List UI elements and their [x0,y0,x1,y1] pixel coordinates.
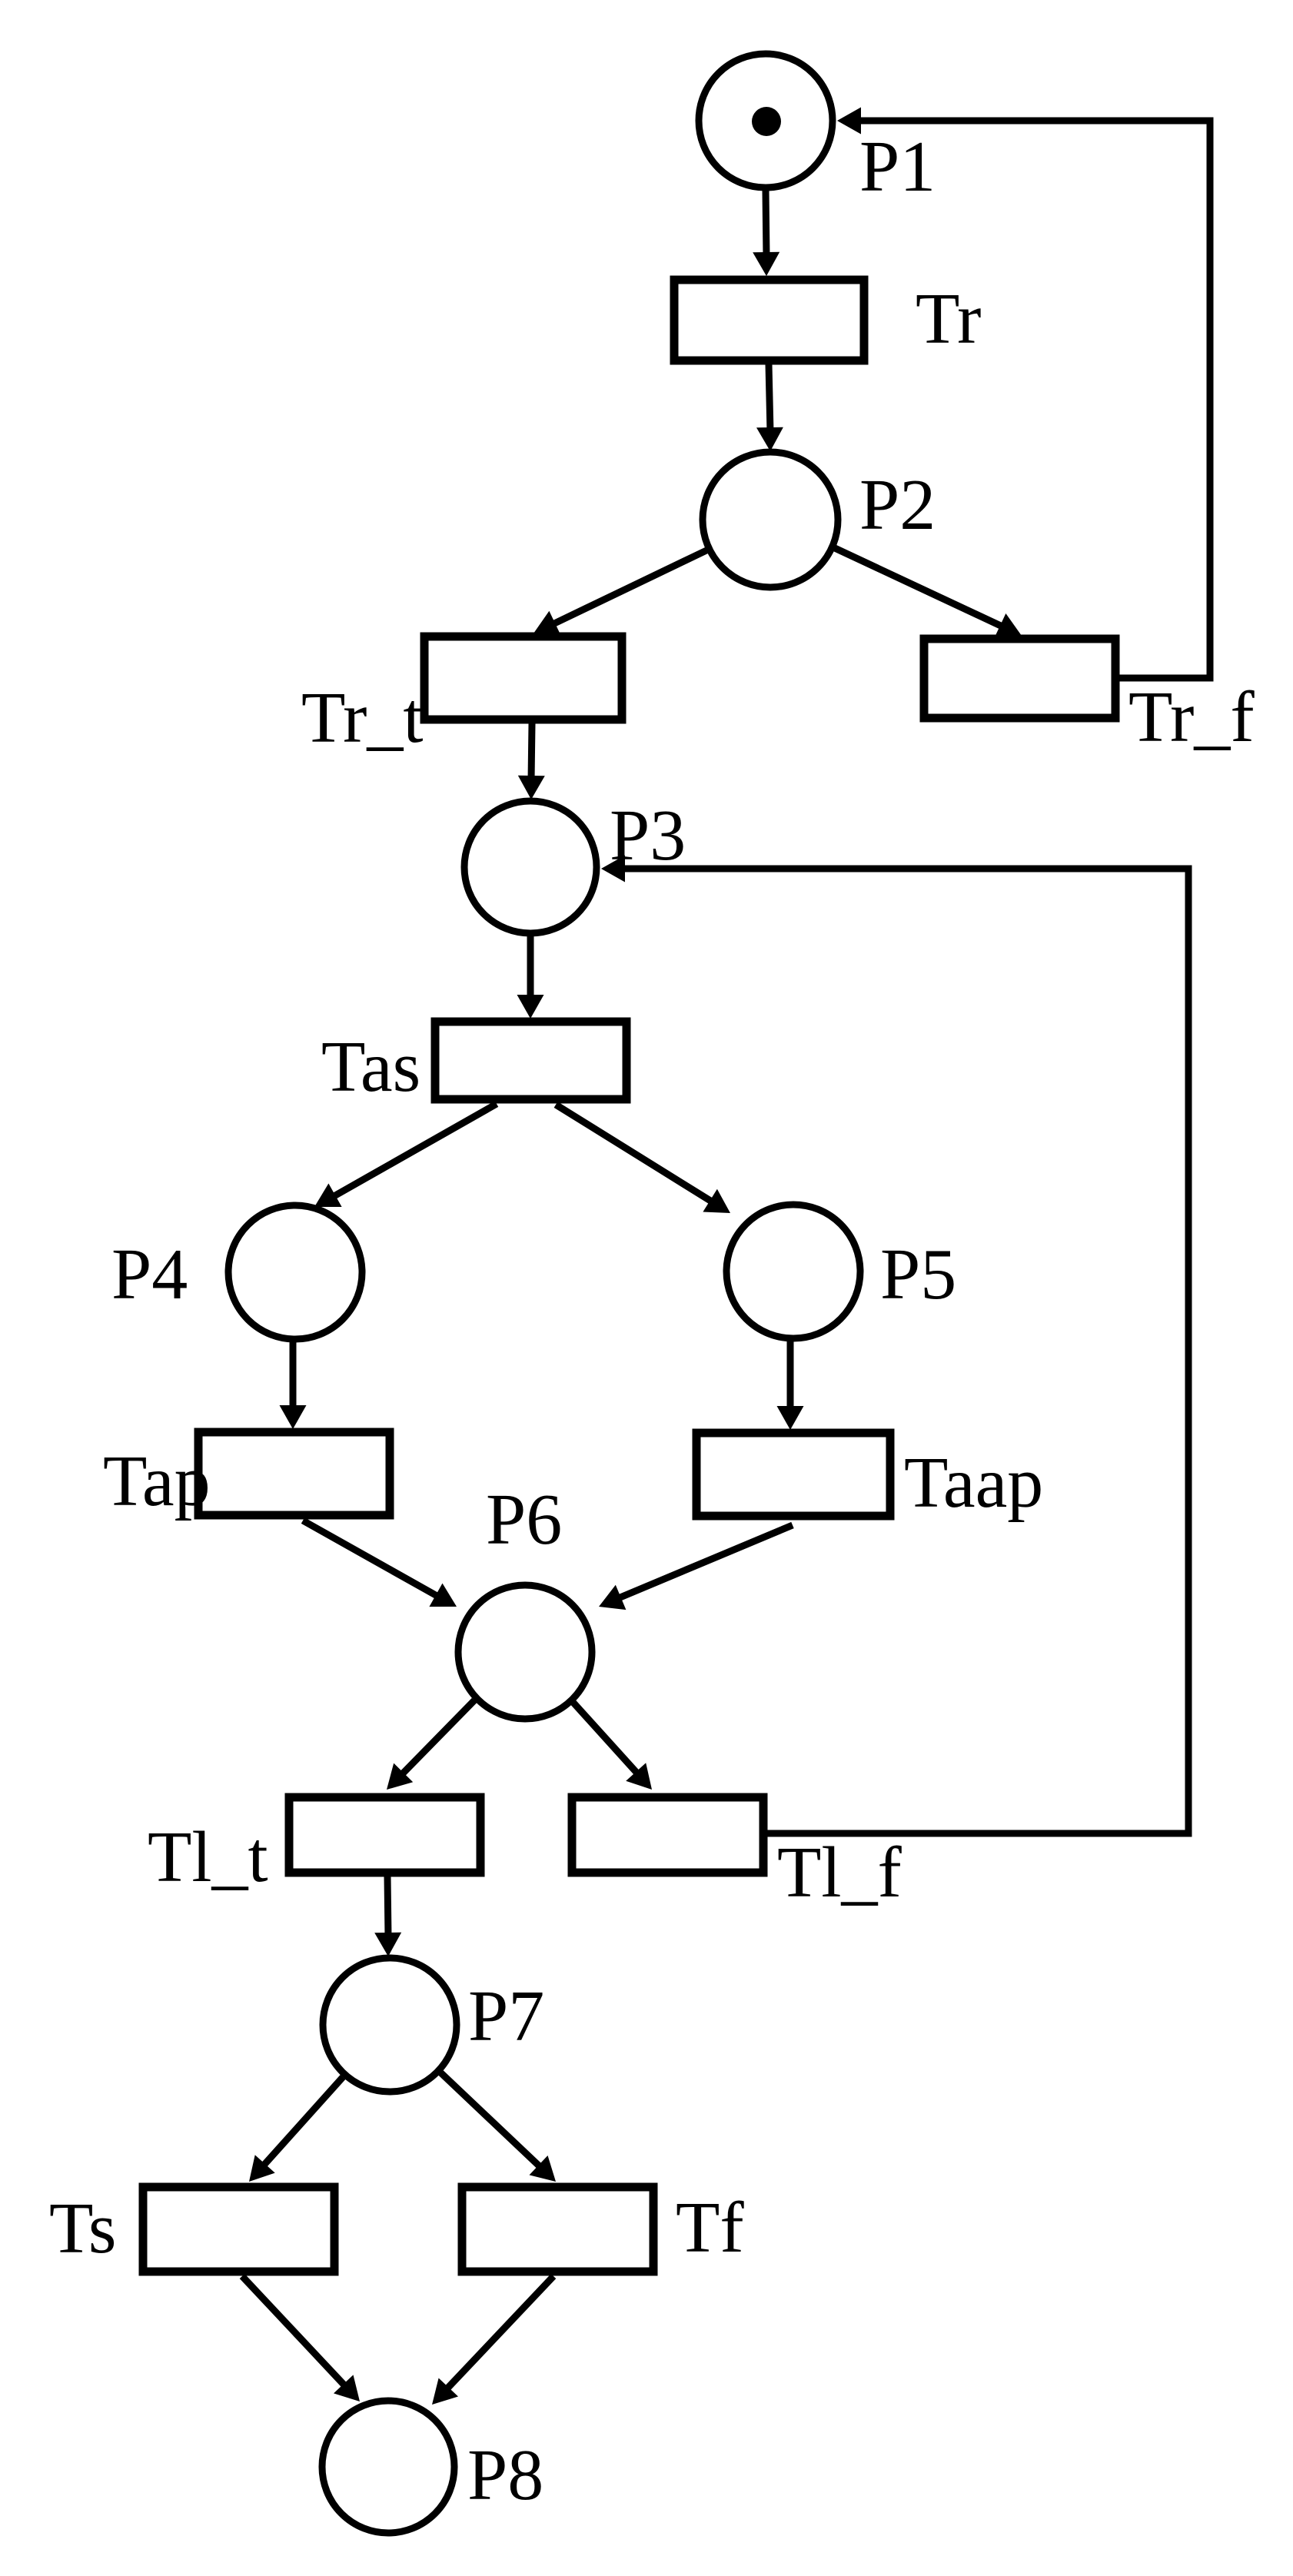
transition Tr_t [424,637,622,720]
arc Tr_t to P3 [531,723,532,780]
arc Tas to P4 [331,1104,497,1198]
place P1 [699,54,833,188]
transition Tas [435,1022,627,1099]
arc P6 to Tl_f [573,1703,639,1775]
place P5 [726,1205,860,1338]
svg-text:P6: P6 [486,1480,562,1560]
transition Tl_f [572,1797,763,1873]
svg-text:Tr: Tr [916,279,981,359]
transition Tr_f [924,639,1115,718]
arc P6 to Tl_t [401,1700,474,1776]
transition Tf [462,2187,653,2272]
svg-text:P7: P7 [468,1976,544,2056]
arc Tr to P2 [769,364,770,432]
transition Ts [143,2187,334,2272]
svg-text:Tr_f: Tr_f [1128,677,1255,757]
arc Tas to P5 [556,1105,714,1203]
arc P7 to Ts [262,2077,343,2167]
arc P1 to Tr [766,191,766,257]
svg-text:P3: P3 [610,796,686,876]
svg-text:Taap: Taap [904,1443,1043,1523]
place P7 [323,1958,457,2092]
arc P3 to Tas [527,936,534,999]
place P4 [228,1205,362,1339]
svg-text:Tl_f: Tl_f [777,1833,902,1913]
feedback arc Tr_f to P1 [861,121,1210,678]
svg-text:P1: P1 [859,127,936,207]
place P2 [703,452,838,587]
arc Tl_t to P7 [387,1876,388,1937]
place P6 [458,1585,592,1719]
arc P4 to Tap [290,1342,297,1410]
place P3 [464,801,597,933]
svg-text:P8: P8 [467,2435,543,2515]
arc Tf to P8 [445,2276,553,2391]
arc Ts to P8 [242,2276,347,2388]
svg-text:P2: P2 [859,465,936,545]
arc Tap to P6 [303,1521,440,1597]
svg-text:Ts: Ts [49,2189,116,2269]
svg-text:Tr_t: Tr_t [301,678,424,758]
arc P7 to Tf [440,2072,542,2169]
arc P2 to Tr_f [835,548,1004,627]
svg-text:P4: P4 [111,1235,188,1315]
transition Tr [674,280,864,361]
feedback arc Tl_f to P3 [623,869,1188,1833]
transition Tl_t [289,1797,480,1873]
arc P5 to Taap [787,1341,794,1411]
svg-text:Tas: Tas [321,1027,420,1107]
svg-text:P5: P5 [880,1235,956,1315]
svg-text:Tap: Tap [103,1441,211,1521]
arc P2 to Tr_t [551,550,706,625]
token in P1 [752,107,781,136]
svg-text:Tl_t: Tl_t [148,1817,268,1897]
transition Taap [696,1433,890,1516]
svg-text:Tf: Tf [676,2188,744,2268]
transition Tap [198,1432,390,1515]
place P8 [322,2401,454,2533]
arc Taap to P6 [617,1525,793,1599]
